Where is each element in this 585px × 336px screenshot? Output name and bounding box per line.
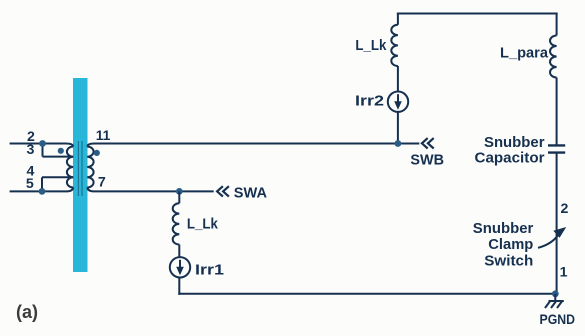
wire pin 2 lead: [10, 144, 74, 147]
transformer T1 core lines: [78, 141, 82, 196]
wire link pins 2-3: [42, 144, 44, 157]
wire Irr2 to node SWB: [397, 112, 399, 144]
svg-text:Switch: Switch: [484, 254, 533, 270]
svg-text:5: 5: [26, 176, 34, 192]
current source Irr2: [388, 92, 408, 112]
wire L_Lk to Irr2: [397, 66, 399, 91]
wire bottom rail: [178, 293, 555, 295]
svg-text:Snubber: Snubber: [484, 135, 545, 151]
wire SWA branch down: [178, 191, 180, 203]
snubber clamp switch arrow: [538, 227, 566, 248]
svg-text:SWA: SWA: [234, 185, 268, 201]
junction dot pins 4-5: [39, 188, 46, 195]
wire pin 4 lead: [42, 176, 73, 178]
transformer T1 primary winding left: [67, 147, 73, 188]
transformer T1 right polarity dot: [94, 150, 100, 156]
wire pin 7 to node SWA: [87, 188, 213, 192]
junction dot PGND: [552, 290, 559, 297]
transformer T1 secondary winding right: [87, 147, 93, 188]
transformer T1 left polarity dot: [58, 148, 64, 154]
capacitor snubber: [548, 145, 565, 152]
svg-text:L_para: L_para: [500, 46, 549, 62]
wire pin 5 lead: [10, 188, 74, 192]
svg-text:(a): (a): [16, 302, 38, 322]
transformer T1 core bar: [73, 78, 88, 272]
node SWA chevrons: [217, 186, 229, 196]
wire top rail: [397, 13, 558, 15]
svg-text:11: 11: [96, 128, 111, 143]
svg-text:7: 7: [98, 175, 106, 191]
node SWB chevrons: [422, 138, 434, 148]
svg-text:3: 3: [26, 142, 34, 158]
current source Irr1: [170, 257, 190, 277]
svg-text:SWB: SWB: [410, 152, 444, 168]
wire right rail top: [556, 13, 558, 36]
inductor L_para: [550, 36, 557, 78]
junction dot SWA branch: [176, 188, 183, 195]
junction dot pins 2-3: [39, 140, 46, 147]
wire L_Lk to Irr1: [178, 245, 180, 258]
svg-text:L_Lk: L_Lk: [187, 216, 219, 232]
svg-text:L_Lk: L_Lk: [355, 38, 387, 54]
wire link pins 4-5: [41, 177, 43, 191]
svg-text:1: 1: [560, 265, 568, 281]
svg-text:Irr2: Irr2: [355, 94, 384, 110]
wire pin 3 lead: [43, 156, 74, 158]
svg-text:Snubber: Snubber: [473, 221, 534, 237]
wire SWB vertical top: [397, 13, 399, 25]
junction dot SWB: [395, 140, 402, 147]
ground PGND symbol: [545, 294, 564, 308]
inductor L_Lk upper: [391, 25, 398, 66]
svg-text:PGND: PGND: [540, 311, 576, 327]
svg-text:Irr1: Irr1: [195, 263, 224, 279]
svg-text:Capacitor: Capacitor: [475, 151, 545, 167]
wire L_para to capacitor: [556, 78, 558, 146]
wire pin 11 to node SWB: [87, 144, 419, 147]
wire capacitor to switch to bottom: [556, 153, 558, 294]
wire Irr1 to bottom rail: [178, 278, 180, 295]
svg-text:2: 2: [560, 201, 568, 217]
svg-text:Clamp: Clamp: [488, 237, 533, 253]
inductor L_Lk lower: [173, 203, 180, 244]
